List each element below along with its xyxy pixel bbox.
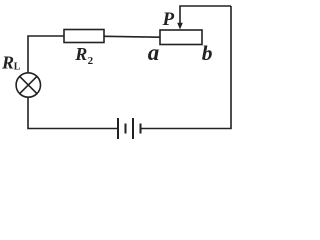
svg-text:a: a	[148, 40, 160, 65]
svg-text:L: L	[14, 62, 21, 73]
battery plate long 1	[117, 118, 119, 139]
battery plate short 2	[140, 124, 142, 134]
svg-text:P: P	[162, 9, 175, 30]
resistor R2	[64, 30, 104, 43]
svg-text:b: b	[202, 41, 213, 65]
wiper P wire	[180, 6, 231, 24]
lamp RL	[16, 73, 40, 97]
potentiometer body ab	[160, 30, 202, 45]
svg-text:2: 2	[88, 55, 94, 67]
wire bottom-left segment	[28, 97, 118, 129]
battery plate long 2	[132, 118, 134, 139]
wire right side	[141, 6, 232, 129]
battery plate short 1	[125, 124, 127, 134]
wire top-left segment	[28, 36, 64, 97]
svg-text:R: R	[74, 44, 87, 64]
wire R2 to potentiometer	[104, 35, 160, 38]
svg-text:R: R	[1, 53, 14, 73]
battery cells	[118, 118, 141, 139]
wiper arrowhead	[177, 23, 183, 30]
